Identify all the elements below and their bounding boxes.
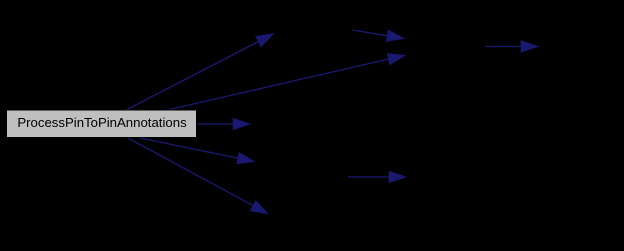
edge node3->node8 (top-right horizontal) xyxy=(486,41,538,52)
edge node6->node9 (lower horizontal) xyxy=(348,171,406,182)
svg-text:ProcessPinToPinAnnotations: ProcessPinToPinAnnotations xyxy=(17,115,187,130)
edge main->node6 (down diagonal) xyxy=(138,138,254,164)
edge main->node3 (long shallow diagonal) xyxy=(167,54,405,110)
edge node2->node3 (short top arrow) xyxy=(353,30,404,41)
edge main->node5 (horizontal right) xyxy=(198,118,250,129)
node main: ProcessPinToPinAnnotations box xyxy=(7,110,197,138)
edge main->node2 (up-left diagonal) xyxy=(126,34,273,110)
edge main->node7 (steep down diagonal) xyxy=(127,138,268,214)
